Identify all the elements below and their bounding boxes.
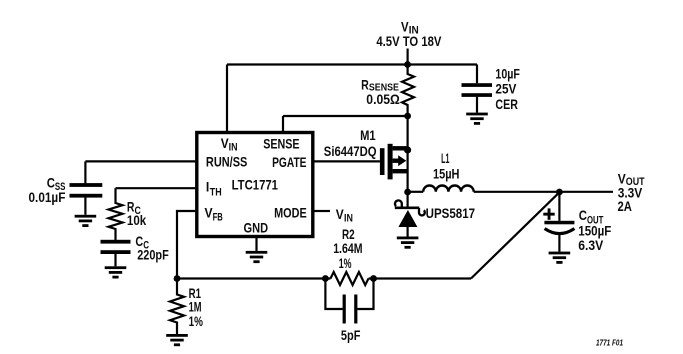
svg-text:RUN/SS: RUN/SS: [206, 154, 248, 170]
svg-text:C: C: [579, 207, 587, 223]
svg-text:4.5V TO 18V: 4.5V TO 18V: [376, 33, 442, 49]
svg-text:10k: 10k: [127, 212, 146, 228]
svg-text:150µF: 150µF: [578, 222, 611, 238]
svg-text:1%: 1%: [189, 313, 204, 329]
svg-text:M1: M1: [360, 127, 376, 143]
svg-text:L1: L1: [441, 150, 449, 166]
svg-text:PGATE: PGATE: [272, 154, 306, 170]
svg-text:1771 F01: 1771 F01: [596, 339, 623, 348]
svg-text:0.05Ω: 0.05Ω: [366, 91, 400, 107]
svg-text:25V: 25V: [495, 81, 517, 97]
svg-text:FB: FB: [213, 211, 223, 223]
svg-text:5pF: 5pF: [341, 327, 361, 343]
svg-text:0.01µF: 0.01µF: [29, 189, 66, 205]
svg-text:1.64M: 1.64M: [333, 240, 362, 256]
svg-text:IN: IN: [344, 213, 353, 225]
svg-text:6.3V: 6.3V: [578, 237, 604, 253]
svg-text:SENSE: SENSE: [263, 136, 299, 152]
svg-text:GND: GND: [244, 219, 269, 235]
svg-text:R: R: [361, 76, 369, 92]
svg-text:LTC1771: LTC1771: [232, 177, 279, 193]
svg-text:2A: 2A: [618, 198, 632, 214]
svg-text:10µF: 10µF: [495, 66, 520, 82]
svg-text:I: I: [206, 179, 209, 195]
svg-text:1%: 1%: [339, 255, 352, 271]
svg-text:IN: IN: [229, 142, 238, 154]
svg-text:Si6447DQ: Si6447DQ: [324, 143, 377, 159]
svg-text:CER: CER: [495, 96, 518, 112]
svg-text:UPS5817: UPS5817: [426, 205, 476, 221]
svg-text:220pF: 220pF: [137, 247, 169, 263]
svg-text:15µH: 15µH: [433, 165, 460, 181]
svg-text:MODE: MODE: [274, 204, 307, 220]
svg-text:TH: TH: [210, 186, 222, 198]
